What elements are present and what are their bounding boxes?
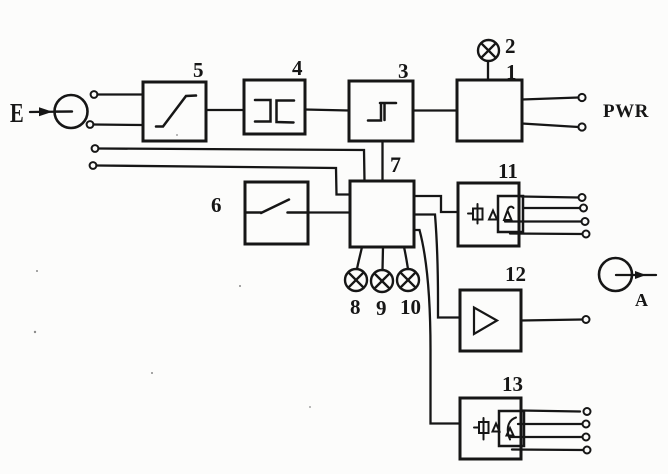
wire block1 to PWR terminal 1 <box>522 98 579 100</box>
input arrow into E <box>30 107 72 116</box>
svg-text:7: 7 <box>390 152 401 177</box>
wire block7 to lamp8 <box>357 247 362 269</box>
source circle E <box>55 95 88 128</box>
terminal T1 <box>91 91 98 98</box>
block 3 hysteresis icon <box>368 103 396 121</box>
terminal block11 out 2 <box>580 205 587 212</box>
wire block12 out <box>521 320 583 321</box>
wire block11 out 4 <box>510 232 583 235</box>
block 12 amplifier triangle <box>474 308 497 335</box>
PWR terminal 2 <box>578 123 585 130</box>
svg-text:11: 11 <box>498 159 518 183</box>
wire block6 to block7 <box>308 211 350 213</box>
block 13 contact triangle a <box>493 424 500 432</box>
svg-text:12: 12 <box>505 262 526 286</box>
output arrow from A <box>616 271 656 279</box>
svg-text:8: 8 <box>350 295 361 319</box>
lamp 10 <box>397 269 419 291</box>
terminal block13 out 4 <box>584 447 591 454</box>
svg-text:E: E <box>10 99 24 128</box>
terminal block13 out 3 <box>583 434 590 441</box>
wire block11 out 1 <box>522 197 579 198</box>
block 13 contact hook <box>507 418 517 440</box>
svg-text:A: A <box>635 290 648 310</box>
block 12 <box>460 290 521 351</box>
svg-text:4: 4 <box>292 56 303 80</box>
wire block7 to lamp10 <box>404 247 408 269</box>
wire block7 to block11 <box>414 196 458 212</box>
block 1 <box>457 80 522 141</box>
wire block3 to block7 <box>381 141 383 181</box>
wire block13 out 4 <box>512 448 584 451</box>
wire lamp2 to block1 <box>487 61 489 80</box>
wire block1 to PWR terminal 2 <box>522 124 579 128</box>
block 4 <box>244 80 305 134</box>
lamp 9 <box>371 270 393 292</box>
wire block13 out 1 <box>521 411 580 412</box>
wire block3 to block1 <box>413 109 457 111</box>
block 13 inner contact box <box>499 411 524 446</box>
block 11 relay coil <box>468 204 483 224</box>
block 11 contact triangle a <box>489 211 497 220</box>
wire block13 out 2 <box>518 423 583 425</box>
block 7 <box>350 181 414 247</box>
wire block13 out 3 <box>510 436 583 438</box>
wire block4 to block3 <box>305 110 349 111</box>
terminal T3 <box>92 145 99 152</box>
svg-text:9: 9 <box>376 296 387 320</box>
terminal T2 <box>87 121 94 128</box>
block 13 relay coil <box>474 418 489 440</box>
block 6 <box>245 182 308 244</box>
terminal block12 out <box>583 316 590 323</box>
lamp 2 <box>478 40 499 61</box>
block 5 <box>143 82 206 141</box>
wire block7 to block13 <box>414 230 460 424</box>
lamp 8 <box>345 269 367 291</box>
wire T1 to block5 <box>98 93 144 95</box>
wire T3 to block7 top <box>99 149 365 182</box>
block 11 <box>458 183 519 246</box>
svg-text:10: 10 <box>400 295 421 319</box>
wire block5 to block4 <box>206 109 244 111</box>
block 3 <box>349 81 413 141</box>
svg-text:1: 1 <box>506 60 517 84</box>
terminal block11 out 1 <box>579 194 586 201</box>
svg-text:13: 13 <box>502 372 523 396</box>
svg-text:PWR: PWR <box>603 101 649 122</box>
block 6 switch icon <box>246 200 308 214</box>
wire block11 out 2 <box>523 207 580 209</box>
PWR terminal 1 <box>578 94 585 101</box>
block 5 limiter icon <box>156 96 196 127</box>
wire T4 to block7 left <box>97 166 351 195</box>
wire block7 to block12 <box>414 215 460 318</box>
terminal block11 out 3 <box>582 218 589 225</box>
svg-text:2: 2 <box>505 34 516 58</box>
block 13 <box>460 398 521 459</box>
svg-text:6: 6 <box>211 193 222 217</box>
block 4 pulse icon left bracket <box>255 100 271 122</box>
wire block11 out 3 <box>505 220 582 222</box>
svg-text:3: 3 <box>398 59 409 83</box>
terminal T4 <box>90 162 97 169</box>
block 11 contact triangle b <box>504 207 514 220</box>
terminal block13 out 2 <box>583 421 590 428</box>
terminal block13 out 1 <box>584 408 591 415</box>
block 4 pulse icon right bracket <box>277 101 295 123</box>
line into source circle E <box>56 110 72 112</box>
scan speckles <box>34 134 311 408</box>
terminal block11 out 4 <box>583 231 590 238</box>
block 11 inner contact box <box>498 196 523 232</box>
output meter circle A <box>599 258 632 291</box>
svg-text:5: 5 <box>193 58 204 82</box>
wire block7 to lamp9 <box>381 247 384 270</box>
wire T2 to block5 <box>94 123 144 126</box>
